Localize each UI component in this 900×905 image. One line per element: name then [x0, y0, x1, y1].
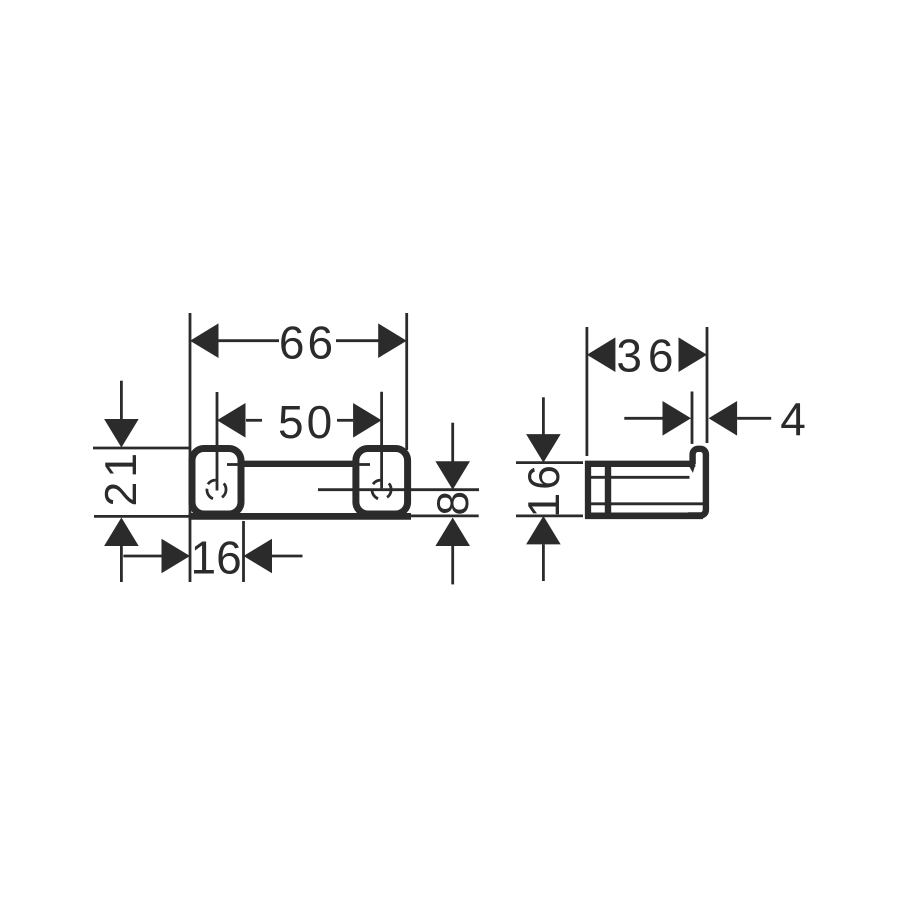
- extension line 4 left: [691, 392, 694, 444]
- arrow 36 left: [587, 337, 616, 372]
- svg-text:8: 8: [429, 491, 478, 516]
- svg-text:66: 66: [279, 317, 336, 369]
- reference line 21 bottom: [94, 515, 190, 518]
- svg-text:16: 16: [520, 462, 569, 518]
- bottom reference extension right: [411, 515, 479, 518]
- dimension line 16 left shaft: [123, 555, 162, 558]
- svg-text:36: 36: [616, 329, 679, 381]
- bar bottom edge: [189, 513, 412, 520]
- dimension line 4 left shaft: [624, 417, 663, 420]
- arrow 16 right-pointing: [162, 539, 191, 574]
- arrow 16 side down: [526, 434, 561, 463]
- side view: bar bottom edge: [585, 512, 703, 519]
- dimension line 50: [246, 419, 262, 422]
- center line 50 right: [380, 392, 383, 489]
- side view: bar left end: [585, 461, 591, 519]
- arrow 8 up: [435, 518, 470, 547]
- side view: wall plate: [688, 449, 706, 516]
- mounting plate left: [192, 449, 241, 515]
- arrow 16 side up: [526, 516, 561, 545]
- arrow 21 up: [104, 518, 139, 547]
- dimension line 8 lower shaft: [451, 545, 454, 585]
- extension line 66 left: [189, 313, 192, 582]
- svg-text:16: 16: [191, 532, 242, 584]
- side view: inner line upper: [589, 476, 690, 479]
- tick inside left plate: [227, 463, 241, 466]
- center line through bar (8 ref): [318, 488, 479, 491]
- arrow 50 right: [353, 403, 382, 438]
- svg-text:50: 50: [278, 396, 335, 448]
- reference line 21 top: [93, 447, 190, 450]
- bar top edge: [239, 461, 358, 467]
- dimension line 16 right shaft: [272, 555, 303, 558]
- side view: inner line lower: [589, 502, 703, 505]
- side view: hook lip wedge: [688, 465, 695, 473]
- arrow 66 left: [190, 323, 219, 358]
- screw hole right (dashed circle): [372, 480, 391, 499]
- extension line 36 left: [586, 327, 589, 456]
- screw hole left (dashed circle): [207, 480, 226, 499]
- tick inside right plate: [356, 463, 370, 466]
- svg-text:4: 4: [780, 393, 806, 445]
- arrow 50 left: [217, 403, 246, 438]
- dimension line 16 side upper shaft: [542, 397, 545, 435]
- dimension line 66: [218, 339, 279, 342]
- arrow 4 right-pointing: [663, 401, 692, 436]
- arrow 8 down: [435, 461, 470, 490]
- extension line 16 right: [242, 521, 245, 582]
- extension line 66 right: [405, 313, 408, 450]
- dimension line 21 lower shaft: [120, 545, 123, 582]
- dimension line 4 right shaft: [737, 417, 771, 420]
- svg-text:21: 21: [97, 449, 146, 507]
- center line 50 left: [216, 392, 219, 491]
- extension line 36 right: [706, 327, 709, 443]
- arrow 66 right: [378, 323, 407, 358]
- arrow 4 left-pointing: [709, 401, 738, 436]
- mounting plate right: [356, 449, 408, 515]
- side view: bar top edge: [585, 461, 695, 467]
- dimension line 16 side lower shaft: [542, 544, 545, 581]
- arrow 21 down: [104, 419, 139, 448]
- reference line 16 bottom (side): [516, 515, 583, 518]
- dimension line 8 upper shaft: [451, 423, 454, 462]
- dimension line 21 upper shaft: [120, 381, 123, 420]
- side view: end cap line: [605, 466, 611, 516]
- reference line 16 top (side): [516, 461, 583, 464]
- arrow 36 right: [679, 337, 708, 372]
- arrow 16 left-pointing: [244, 539, 273, 574]
